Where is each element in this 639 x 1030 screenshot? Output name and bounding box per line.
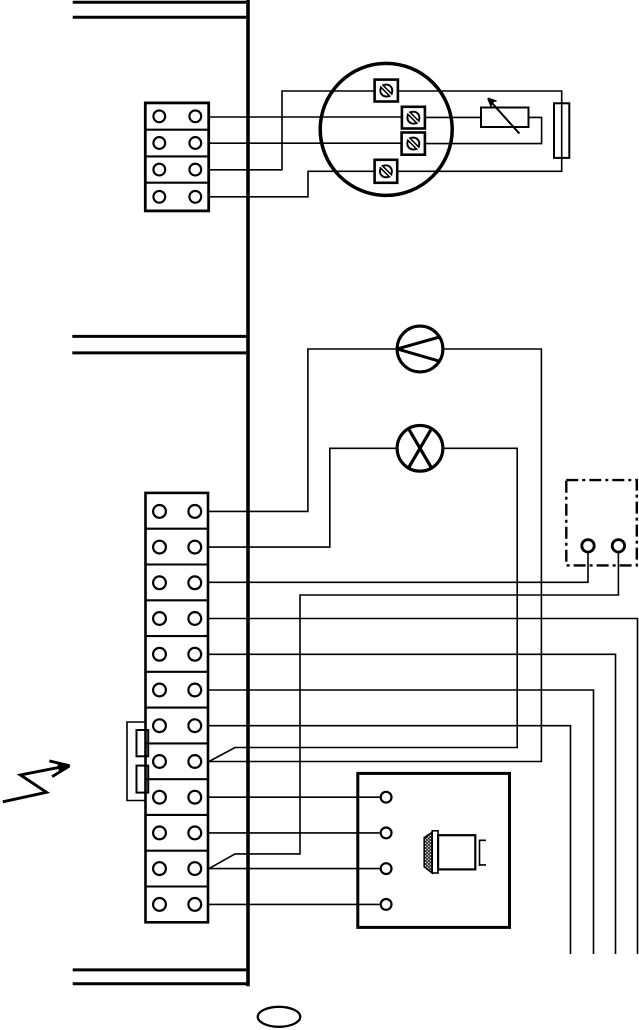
wire TB2 row4 down (208, 619, 638, 955)
burner terminal 4 (381, 899, 392, 910)
fan symbol M1 (397, 326, 443, 372)
wire remote b to TB2 row11 jog (209, 552, 618, 868)
burner terminal 3 (381, 863, 392, 874)
wire TB2 row9 to burner 1 (208, 796, 380, 798)
screw terminal T4 (375, 160, 398, 183)
wire TB2 row12 to burner 4 (208, 903, 380, 905)
burner unit box (358, 773, 510, 927)
wire TB2 row5 down (208, 654, 616, 954)
wire fan right to TB2 row8 (208, 349, 541, 762)
field wiring arrow (3, 761, 70, 802)
burner terminal 2 (381, 828, 392, 839)
remote box terminal a (582, 540, 594, 552)
lamp symbol H1 (397, 425, 443, 471)
potentiometer R1 (481, 98, 529, 133)
wire T1 right loop through fuse to T4 (397, 91, 562, 171)
wire TB1 row1 to T2 (209, 116, 402, 118)
wire T2 to potentiometer (425, 116, 481, 118)
terminal block TB2 (12-pole) (146, 493, 209, 922)
panel wall bottom double line (73, 970, 247, 984)
wire TB2 row2 to lamp left (208, 448, 396, 547)
remote box (dash-dot) (566, 480, 637, 565)
terminal block TB1 (4-pole) (145, 103, 208, 211)
burner terminal 1 (381, 792, 392, 803)
wire TB2 row7 down (208, 726, 571, 954)
screw terminal T1 (375, 80, 398, 102)
fuse F1 (554, 103, 569, 158)
wire TB1 row2 to T3 (209, 142, 402, 144)
wire potentiometer to T3 (425, 117, 542, 143)
panel wall middle double line (72, 336, 246, 353)
wire TB2 row10 to burner 2 (208, 832, 380, 834)
wire TB2 row6 down (208, 690, 594, 954)
thermostat body circle B1 (320, 63, 452, 195)
panel wall top double line (73, 2, 247, 17)
panel main vertical line (246, 0, 250, 986)
screw terminal T2 (402, 107, 425, 129)
motor symbol inside burner box (424, 831, 486, 873)
wire TB2 row1 to fan left (208, 349, 396, 511)
cable gland ellipse (258, 1007, 301, 1027)
wire lamp right to TB2 row8 jog (209, 448, 517, 761)
wire TB1 row3 to T1 (209, 91, 375, 170)
screw terminal T3 (402, 133, 425, 155)
wire TB1 row4 to T4 (209, 171, 375, 197)
remote box terminal b (612, 540, 624, 552)
wire TB2 row11 to burner 3 (208, 868, 380, 870)
jumper bracket on TB2 left (127, 722, 148, 801)
wire remote a to TB2 row3 (208, 552, 588, 582)
